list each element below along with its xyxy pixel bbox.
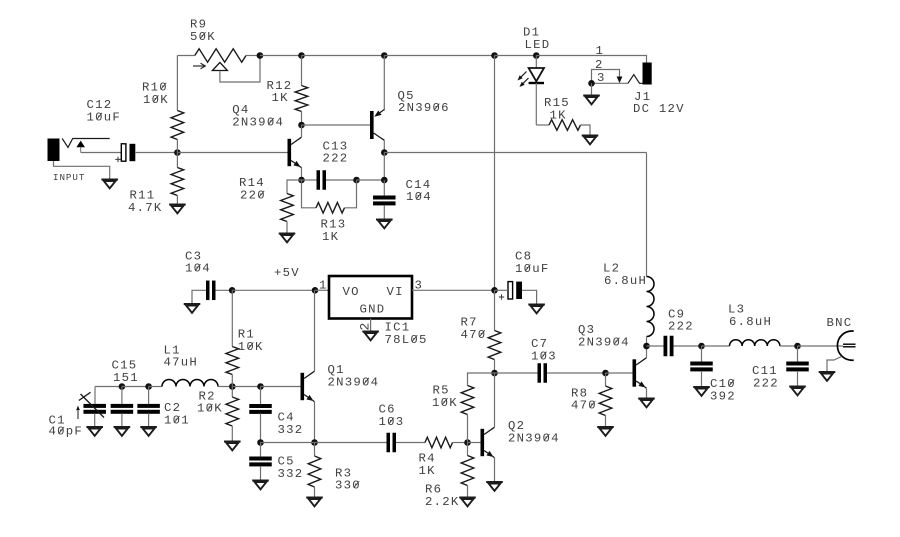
J1 pin2 contact <box>592 70 620 84</box>
ground (R11) <box>169 204 186 206</box>
svg-text:10K: 10K <box>143 93 169 107</box>
node L3 / C11 / BNC <box>794 343 801 350</box>
wire Q3 base <box>606 372 633 374</box>
wire Q1 base <box>261 386 301 388</box>
capacitor C7 (103) <box>495 372 538 374</box>
node C14 top <box>381 177 388 184</box>
svg-text:1K: 1K <box>322 230 339 244</box>
wire 12V vertical to IC1 VI <box>494 56 496 291</box>
capacitor C13 (222) <box>302 179 317 181</box>
svg-text:6.8uH: 6.8uH <box>729 315 772 329</box>
svg-text:10uF: 10uF <box>515 262 550 276</box>
wire input tip to C12 <box>81 152 122 154</box>
svg-text:10K: 10K <box>432 396 458 410</box>
svg-text:151: 151 <box>113 371 139 385</box>
transistor Q2 (2N3904) <box>468 442 481 444</box>
ground (R6) <box>459 497 476 499</box>
node top rail / D1 <box>533 52 540 59</box>
wire C13 node to C14 node <box>357 179 385 181</box>
wire C2 to L1 <box>149 386 162 388</box>
ground (C14) <box>376 219 393 221</box>
ground (C10) <box>693 386 710 388</box>
transistor Q5 (2N3906 PNP) <box>370 111 374 139</box>
capacitor C15 (151) <box>119 383 126 390</box>
connector J1 (DC 12V jack) <box>643 63 652 85</box>
wire Q3 emitter to ground <box>646 388 648 398</box>
ground (R3) <box>306 497 323 499</box>
ground (IC1) <box>362 331 379 333</box>
inductor L2 (6.8uH) <box>646 153 648 277</box>
wire L1 to R1/R2 node <box>218 386 232 388</box>
wire top rail to D1 <box>495 55 537 57</box>
node C9 / C10 / L3 <box>698 343 705 350</box>
capacitor C11 (222) <box>797 346 799 362</box>
svg-text:2N3904: 2N3904 <box>508 432 560 446</box>
resistor R13 (1K) <box>302 180 317 208</box>
svg-text:50K: 50K <box>190 30 216 44</box>
wire input sleeve to ground <box>54 161 110 180</box>
IC1 pin 3 wire <box>412 289 495 291</box>
ground (C3) <box>184 303 201 305</box>
wire top rail R9 to R12 <box>260 55 302 57</box>
svg-text:2N3904: 2N3904 <box>232 116 284 130</box>
svg-text:332: 332 <box>278 423 304 437</box>
resistor R10 (10K) <box>176 56 178 111</box>
svg-text:3: 3 <box>415 278 424 292</box>
node A junction (input/R10/R11) <box>174 149 181 156</box>
svg-text:470: 470 <box>461 328 487 342</box>
resistor R7 (470) <box>494 290 496 330</box>
wire emitter rail C4 to Q1 <box>261 442 315 444</box>
svg-text:2.2K: 2.2K <box>425 495 460 509</box>
ground (Q2) <box>486 481 503 483</box>
LED D1 <box>535 56 537 69</box>
svg-text:3: 3 <box>597 71 606 85</box>
wire Q1 emitter down <box>314 402 316 443</box>
node C7 / R8 / Q3 base <box>602 370 609 377</box>
ground (C2) <box>140 426 157 428</box>
svg-text:1K: 1K <box>272 91 289 105</box>
svg-text:104: 104 <box>185 262 211 276</box>
svg-text:222: 222 <box>753 376 779 390</box>
svg-text:47uH: 47uH <box>164 356 199 370</box>
node R9/R12 wiper junction <box>257 52 264 59</box>
capacitor C12 (10uF polarized) <box>121 144 126 161</box>
resistor R11 (4.7K) <box>176 153 178 168</box>
capacitor C4 (332) <box>260 387 262 405</box>
BNC shield to ground <box>827 357 842 373</box>
transistor Q1 (2N3904) <box>301 373 305 400</box>
wire Q2 collector up to R7 node <box>494 373 496 427</box>
ground (C11) <box>789 386 806 388</box>
svg-text:2N3904: 2N3904 <box>578 335 630 349</box>
node +5V / Q1 collector / IC1 pin1 <box>312 287 319 294</box>
svg-text:101: 101 <box>164 414 190 428</box>
capacitor C2 (101) <box>145 383 152 390</box>
svg-text:222: 222 <box>668 320 694 334</box>
node Q4 collector / R12 / Q5 base <box>298 122 305 129</box>
svg-text:+5V: +5V <box>274 266 300 280</box>
ground (C15) <box>114 426 131 428</box>
wire top rail R12 to Q5 emitter <box>302 55 385 57</box>
node J1 pin3 / ground <box>588 80 595 87</box>
resistor R2 (10K) <box>231 387 233 398</box>
svg-text:103: 103 <box>531 349 557 363</box>
node R4 / R5 / R6 / Q2 base <box>464 439 471 446</box>
potentiometer R9 (50K) <box>177 55 194 57</box>
svg-text:GND: GND <box>360 303 386 317</box>
node C13 / R13 <box>353 177 360 184</box>
wire top rail D1 to J1 pin1 <box>536 56 646 63</box>
wire Q1 collector to +5V <box>314 290 316 371</box>
ground (Q3) <box>638 398 655 400</box>
svg-text:1K: 1K <box>419 464 436 478</box>
resistor R14 (220) <box>287 180 302 194</box>
node Q1 emitter / R3 / C6 <box>311 439 318 446</box>
svg-text:2: 2 <box>358 323 373 331</box>
svg-text:2N3906: 2N3906 <box>398 101 450 115</box>
svg-text:LED: LED <box>525 38 551 52</box>
svg-text:332: 332 <box>278 467 304 481</box>
svg-text:392: 392 <box>710 390 736 404</box>
svg-text:2: 2 <box>595 58 604 72</box>
wire Q5 collector down to C14 node <box>383 153 385 181</box>
svg-text:DC 12V: DC 12V <box>633 102 685 116</box>
connector BNC output <box>798 345 844 347</box>
svg-text:6.8uH: 6.8uH <box>604 274 647 288</box>
node C4 / C5 / emitter rail <box>257 439 264 446</box>
resistor R8 (470) <box>605 373 607 386</box>
svg-text:104: 104 <box>406 190 432 204</box>
resistor R5 (10K) <box>468 373 495 386</box>
trimmer capacitor C1 (40pF) <box>94 387 96 404</box>
wire +5V rail <box>232 289 315 291</box>
transistor Q3 (2N3904) <box>633 359 637 386</box>
capacitor C9 (222) <box>647 345 664 347</box>
svg-text:10K: 10K <box>238 340 264 354</box>
node +5V / R1 <box>229 287 236 294</box>
resistor R6 (2.2K) <box>467 443 469 456</box>
svg-text:1K: 1K <box>550 109 567 123</box>
node Q4 emitter / R14 / C13 <box>298 177 305 184</box>
resistor R3 (330) <box>314 443 316 457</box>
ground (C5) <box>252 480 269 482</box>
ground (BNC) <box>819 371 836 373</box>
svg-text:40pF: 40pF <box>49 425 84 439</box>
capacitor C6 (103) <box>315 442 387 444</box>
svg-text:1: 1 <box>596 44 605 58</box>
svg-text:330: 330 <box>335 479 361 493</box>
wire Q3 collector to L2/C9 node <box>646 346 648 358</box>
capacitor C5 (332) <box>260 443 262 457</box>
wire tank to C4 <box>232 386 260 388</box>
wire node A to Q4 base <box>177 152 287 154</box>
capacitor C3 (104) <box>192 290 206 304</box>
svg-text:VO: VO <box>343 285 360 299</box>
J1 pin3 contact <box>592 82 629 84</box>
svg-text:BNC: BNC <box>827 316 853 330</box>
IC U1 regulator 78L05 box <box>329 276 412 319</box>
wire Q5 collector rail right <box>384 152 646 154</box>
wire C12 to node A <box>135 152 177 154</box>
svg-text:220: 220 <box>240 189 266 203</box>
svg-text:10K: 10K <box>197 402 223 416</box>
resistor R1 (10K) <box>231 290 233 346</box>
node C4 top / Q1 base <box>257 383 264 390</box>
wire C1 to tank rail <box>95 386 122 388</box>
svg-text:222: 222 <box>323 152 349 166</box>
capacitor C8 (10uF polarized) <box>508 282 513 299</box>
node Q5 collector / output rail <box>381 149 388 156</box>
C1 adjust arrow <box>77 410 79 419</box>
svg-text:INPUT: INPUT <box>53 172 85 183</box>
svg-text:10uF: 10uF <box>87 111 122 125</box>
svg-text:VI: VI <box>387 285 404 299</box>
D1 light arrows <box>521 72 526 77</box>
resistor R12 (1K) <box>301 56 303 86</box>
wire C15 to C2 <box>122 386 149 388</box>
inductor L1 (47uH) <box>162 380 218 387</box>
ground (input jack) <box>101 179 118 181</box>
svg-text:1: 1 <box>319 278 328 292</box>
node L1 / R1 / R2 <box>229 383 236 390</box>
R9 adjust arrow <box>193 65 204 67</box>
svg-text:78L05: 78L05 <box>385 333 428 347</box>
node top rail / Q5 emitter <box>381 52 388 59</box>
wire IC1 pin 1 <box>315 289 329 291</box>
node R7 / Q2 collector / C7 <box>491 370 498 377</box>
ground (R8) <box>597 426 614 428</box>
svg-text:103: 103 <box>379 415 405 429</box>
capacitor C10 (392) <box>701 346 703 362</box>
ground (R2) <box>224 441 241 443</box>
node top rail / R12 <box>298 52 305 59</box>
ground (J1) <box>583 95 600 97</box>
resistor R4 (1K) <box>396 442 425 444</box>
wire Q2 emitter to ground <box>494 458 496 482</box>
ground (C1) <box>86 426 103 428</box>
connector input phone jack (INPUT) <box>48 139 60 162</box>
node L2 / Q3 collector / C9 <box>643 343 650 350</box>
IC1 pin 2 ground lead <box>370 319 372 332</box>
node VI / C8 / R7 <box>491 287 498 294</box>
svg-text:2N3904: 2N3904 <box>328 375 380 389</box>
svg-text:4.7K: 4.7K <box>128 201 163 215</box>
ground (C8) <box>528 304 545 306</box>
resistor R15 (1K) <box>535 83 537 125</box>
inductor L3 (6.8uH) <box>702 345 730 347</box>
transistor Q4 (2N3904) <box>288 139 292 166</box>
wire top rail Q5 to +12V vertical <box>384 55 494 57</box>
svg-text:470: 470 <box>571 399 597 413</box>
capacitor C14 (104) <box>383 180 385 196</box>
C1 trimmer bar <box>81 394 105 418</box>
node top rail / 12V feed <box>491 52 498 59</box>
wire Q5 base <box>302 124 371 126</box>
ground (R14) <box>279 233 296 235</box>
ground (R15) <box>582 135 599 137</box>
